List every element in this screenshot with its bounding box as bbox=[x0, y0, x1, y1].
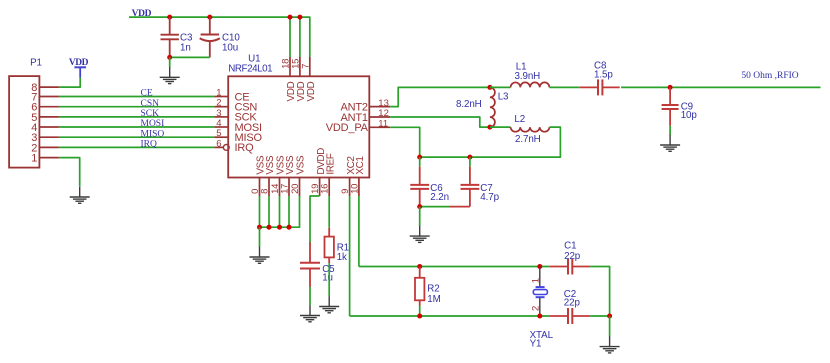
svg-text:CSN: CSN bbox=[141, 99, 160, 109]
wire ANT1 net bbox=[390, 117, 490, 127]
svg-text:IRQ: IRQ bbox=[141, 140, 158, 150]
svg-text:10: 10 bbox=[349, 184, 360, 194]
svg-text:C1: C1 bbox=[564, 240, 576, 251]
wire IREF to R1 bbox=[328, 196, 330, 228]
junction L3 top bbox=[487, 85, 492, 90]
svg-text:20: 20 bbox=[290, 184, 301, 194]
wire VDD_PA pin bbox=[390, 127, 420, 157]
wire L3-L1 bbox=[490, 86, 511, 88]
wire net IRQ bbox=[59, 146, 215, 148]
wire C1 right bbox=[590, 267, 609, 317]
junction bottom-right bbox=[607, 314, 612, 319]
wire P1 pin1 to ground bbox=[59, 158, 80, 187]
capacitor C6 bbox=[419, 167, 421, 185]
svg-text:VDD_PA: VDD_PA bbox=[326, 122, 369, 134]
wire R2 bottom bbox=[419, 306, 421, 317]
wire R1 to ground bbox=[328, 263, 330, 296]
junction C6 top bbox=[417, 155, 422, 160]
wire to ground bottom-right bbox=[609, 316, 611, 337]
svg-text:8: 8 bbox=[260, 189, 271, 194]
wire net SCK bbox=[59, 116, 215, 118]
svg-text:11: 11 bbox=[378, 119, 388, 130]
wire ANT2 net bbox=[390, 87, 490, 106]
wire C5 to ground bbox=[309, 287, 311, 305]
inductor L2 bbox=[511, 127, 550, 132]
svg-text:NRF24L01: NRF24L01 bbox=[228, 64, 272, 75]
connector P1 pins bbox=[39, 86, 59, 88]
ground (C5) bbox=[300, 305, 320, 322]
wire C6 stub bbox=[419, 157, 421, 167]
wire VSS bus bbox=[259, 196, 261, 227]
svg-text:1M: 1M bbox=[427, 294, 440, 305]
wire C3-C10 bottom bbox=[170, 56, 210, 58]
junction VSS x259.5 bbox=[257, 225, 262, 230]
wire C2 right bbox=[590, 315, 609, 317]
connector P1 outline bbox=[9, 76, 39, 168]
junction VSS x289 bbox=[287, 225, 292, 230]
junction L3 bottom bbox=[487, 125, 492, 130]
wire VDD rail bbox=[129, 17, 310, 57]
wire VSS to ground bbox=[259, 227, 261, 247]
svg-text:2: 2 bbox=[531, 306, 542, 311]
svg-text:1.5p: 1.5p bbox=[594, 70, 613, 81]
svg-text:L3: L3 bbox=[498, 91, 509, 102]
svg-text:2.7nH: 2.7nH bbox=[515, 134, 541, 145]
capacitor C2 bbox=[550, 315, 568, 317]
inductor L3 bbox=[490, 87, 495, 127]
wire C7-C6 bottom bbox=[450, 206, 470, 208]
junction rail-C10 bbox=[207, 15, 212, 20]
junction R2 top bbox=[417, 264, 422, 269]
wire net MOSI bbox=[59, 126, 215, 128]
svg-text:6: 6 bbox=[216, 138, 221, 149]
svg-text:1n: 1n bbox=[180, 42, 191, 53]
wire C6 to ground bbox=[419, 207, 421, 226]
svg-text:VDD: VDD bbox=[306, 82, 317, 102]
junction rail-pin18 bbox=[288, 15, 293, 20]
ground (VSS) bbox=[250, 247, 270, 263]
resistor R2 bbox=[419, 267, 421, 278]
wire DVDD to C5 bbox=[310, 196, 320, 244]
wire VDD pin15 drop bbox=[299, 17, 301, 57]
capacitor C5 bbox=[309, 242, 311, 262]
op IC U1 NRF24L01 outline bbox=[228, 76, 369, 177]
svg-text:10u: 10u bbox=[222, 42, 238, 53]
IC U1 right pins 13 12 11 (ANT2 ANT1 VDD_PA) bbox=[369, 106, 390, 108]
junction XTAL pin1 bbox=[537, 264, 542, 269]
wire net MISO bbox=[59, 136, 215, 138]
ground (C6/C7) bbox=[410, 226, 430, 243]
wire L1-C8 bbox=[549, 86, 579, 88]
capacitor C1 bbox=[550, 266, 568, 268]
svg-text:VSS: VSS bbox=[285, 155, 296, 174]
svg-text:13: 13 bbox=[378, 98, 389, 109]
svg-text:XC1: XC1 bbox=[355, 156, 366, 175]
wire L3-L2 bbox=[490, 126, 511, 128]
svg-text:Y1: Y1 bbox=[530, 339, 542, 350]
wire net CSN bbox=[59, 106, 215, 108]
svg-text:VSS: VSS bbox=[296, 155, 307, 174]
capacitor C10 bbox=[209, 17, 211, 34]
svg-text:10p: 10p bbox=[681, 110, 698, 121]
svg-text:P1: P1 bbox=[30, 58, 42, 69]
svg-text:4.7p: 4.7p bbox=[480, 192, 499, 203]
wire L2 right to VDD_PA net bbox=[420, 127, 561, 157]
svg-text:U1: U1 bbox=[248, 53, 260, 64]
svg-text:7: 7 bbox=[300, 64, 311, 69]
svg-text:CE: CE bbox=[141, 89, 153, 99]
ground (R1) bbox=[319, 296, 339, 313]
svg-text:3.9nH: 3.9nH bbox=[515, 71, 541, 82]
svg-text:MISO: MISO bbox=[141, 129, 165, 139]
svg-text:17: 17 bbox=[280, 184, 291, 194]
junction XTAL pin2 bbox=[537, 314, 542, 319]
capacitor C9 bbox=[669, 87, 671, 105]
wire C7 stub bbox=[469, 157, 471, 167]
junction C6 bottom bbox=[417, 204, 422, 209]
svg-text:22p: 22p bbox=[564, 298, 581, 309]
wire XC1 net upper bbox=[359, 266, 550, 268]
svg-text:MOSI: MOSI bbox=[141, 119, 165, 129]
svg-text:1u: 1u bbox=[322, 272, 333, 283]
wire XC1 drop bbox=[358, 196, 360, 267]
crystal Y1 bbox=[539, 267, 541, 287]
junction R2 bottom bbox=[417, 314, 422, 319]
svg-text:22p: 22p bbox=[564, 251, 581, 262]
capacitor C8 bbox=[580, 86, 598, 88]
svg-text:16: 16 bbox=[320, 184, 331, 194]
wire to ground 1 bbox=[169, 57, 171, 67]
wire P1 pin8 to VDD bbox=[59, 78, 80, 88]
svg-text:VSS: VSS bbox=[265, 155, 276, 174]
wire net CE bbox=[59, 96, 215, 98]
junction C7 top bbox=[467, 155, 472, 160]
junction rail-pin15 bbox=[297, 15, 302, 20]
junction C9 top bbox=[668, 85, 673, 90]
capacitor C3 bbox=[169, 17, 171, 35]
svg-text:50 Ohm ,RFIO: 50 Ohm ,RFIO bbox=[741, 71, 798, 81]
ground (P1 pin1) bbox=[70, 187, 90, 204]
wire XC2 net lower bbox=[350, 315, 550, 317]
IC U1 bottom pins (VSS x5, DVDD, IREF, XC2, XC1) bbox=[259, 178, 261, 197]
IC U1 left pins 1-6 (CE CSN SCK MOSI MISO IRQ) bbox=[214, 96, 228, 98]
junction VSS x269 bbox=[267, 225, 272, 230]
svg-text:SCK: SCK bbox=[141, 109, 160, 119]
wire VDD pin18 drop bbox=[289, 17, 291, 57]
ground (C3/C10) bbox=[160, 67, 180, 84]
wire XC2 drop bbox=[349, 196, 351, 316]
inductor L1 bbox=[511, 82, 550, 87]
junction C3 bottom bbox=[167, 55, 172, 60]
IC U1 top pins 18 15 7 (VDD) bbox=[289, 57, 291, 76]
junction VSS x279.5 bbox=[277, 225, 282, 230]
svg-text:IRQ: IRQ bbox=[235, 142, 255, 154]
junction rail-C3 bbox=[167, 15, 172, 20]
svg-text:8.2nH: 8.2nH bbox=[456, 99, 482, 110]
svg-text:1: 1 bbox=[31, 153, 37, 165]
svg-text:IREF: IREF bbox=[325, 153, 336, 174]
wire C8 to RFIO bbox=[621, 86, 820, 88]
ground (C9) bbox=[660, 135, 680, 152]
capacitor C7 bbox=[469, 167, 471, 185]
svg-text:L2: L2 bbox=[514, 114, 525, 125]
svg-text:2.2n: 2.2n bbox=[430, 192, 449, 203]
resistor R1 bbox=[328, 228, 330, 237]
ground (bottom-right) bbox=[600, 336, 620, 353]
svg-text:1: 1 bbox=[531, 278, 542, 283]
svg-text:1k: 1k bbox=[337, 252, 347, 263]
wire C9 to ground bbox=[669, 126, 671, 135]
